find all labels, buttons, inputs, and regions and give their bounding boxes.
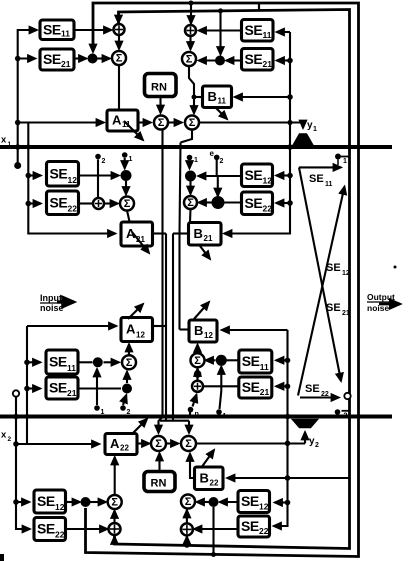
svg-text:1: 1 <box>8 141 12 148</box>
svg-text:Σ: Σ <box>155 438 162 450</box>
svg-text:Σ: Σ <box>194 355 201 367</box>
svg-text:Σ: Σ <box>185 438 192 450</box>
svg-text:e: e <box>210 149 215 158</box>
svg-text:2: 2 <box>8 436 12 443</box>
svg-text:21: 21 <box>263 59 273 69</box>
svg-text:SE: SE <box>245 195 263 211</box>
svg-text:SE: SE <box>242 353 260 369</box>
svg-text:A: A <box>112 113 122 128</box>
svg-text:11: 11 <box>263 30 272 40</box>
svg-text:Σ: Σ <box>116 53 123 65</box>
svg-text:SE: SE <box>245 22 263 38</box>
svg-text:SE: SE <box>326 302 341 314</box>
svg-text:SE: SE <box>49 380 67 396</box>
svg-text:x: x <box>1 430 7 441</box>
svg-text:SE: SE <box>50 165 68 181</box>
svg-text:12: 12 <box>204 331 213 340</box>
svg-text:11: 11 <box>61 29 70 39</box>
svg-text:B: B <box>200 470 209 485</box>
svg-text:SE: SE <box>309 173 324 185</box>
svg-text:SE: SE <box>242 379 260 395</box>
svg-text:2: 2 <box>344 413 348 420</box>
svg-text:1: 1 <box>194 157 198 164</box>
svg-text:Σ: Σ <box>189 117 196 129</box>
svg-text:B: B <box>194 226 203 241</box>
svg-text:Σ: Σ <box>186 54 193 66</box>
svg-text:21: 21 <box>61 59 71 69</box>
svg-text:11: 11 <box>67 363 76 373</box>
svg-text:22: 22 <box>68 204 78 214</box>
svg-text:1: 1 <box>129 156 133 163</box>
svg-text:noise: noise <box>40 303 64 313</box>
svg-text:SE: SE <box>245 51 263 67</box>
svg-text:Σ: Σ <box>111 497 118 509</box>
svg-text:22: 22 <box>120 444 129 453</box>
svg-text:SE: SE <box>49 354 67 370</box>
svg-text:A: A <box>110 436 120 451</box>
svg-text:B: B <box>208 89 217 104</box>
svg-text:22: 22 <box>210 479 219 488</box>
svg-text:12: 12 <box>263 176 273 186</box>
svg-text:11: 11 <box>325 181 333 188</box>
svg-text:p: p <box>195 411 199 418</box>
svg-text:22: 22 <box>55 530 65 540</box>
svg-text:x: x <box>1 135 7 146</box>
svg-text:12: 12 <box>259 502 269 512</box>
svg-text:2: 2 <box>127 409 131 416</box>
svg-text:12: 12 <box>55 502 65 512</box>
svg-text:SE: SE <box>37 521 55 537</box>
svg-text:A: A <box>126 322 136 337</box>
svg-text:12: 12 <box>68 175 78 185</box>
svg-text:SE: SE <box>305 383 320 395</box>
svg-text:1: 1 <box>343 158 347 165</box>
svg-text:2: 2 <box>220 158 224 165</box>
svg-text:SE: SE <box>241 493 259 509</box>
svg-text:SE: SE <box>50 194 68 210</box>
svg-text:B: B <box>194 323 203 338</box>
svg-text:22: 22 <box>321 391 329 398</box>
svg-text:Σ: Σ <box>158 117 165 129</box>
svg-text:22: 22 <box>259 526 269 536</box>
svg-text:SE: SE <box>245 167 263 183</box>
svg-text:12: 12 <box>342 270 350 277</box>
svg-text:Σ: Σ <box>187 197 194 209</box>
svg-text:SE: SE <box>43 21 61 37</box>
svg-text:1: 1 <box>101 409 105 416</box>
svg-text:2: 2 <box>102 158 106 165</box>
svg-text:21: 21 <box>342 310 350 317</box>
svg-text:12: 12 <box>136 331 145 340</box>
svg-text:SE: SE <box>37 493 55 509</box>
svg-text:Σ: Σ <box>185 496 192 508</box>
svg-text:Σ: Σ <box>126 357 133 369</box>
svg-text:21: 21 <box>204 234 213 243</box>
svg-text:11: 11 <box>260 362 269 372</box>
svg-text:Σ: Σ <box>124 198 131 210</box>
svg-text:RN: RN <box>151 478 167 490</box>
svg-text:SE: SE <box>241 518 259 534</box>
svg-text:21: 21 <box>67 388 77 398</box>
svg-text:SE: SE <box>43 51 61 67</box>
svg-text:RN: RN <box>151 82 167 94</box>
svg-text:1: 1 <box>223 413 227 420</box>
svg-text:2: 2 <box>315 442 319 449</box>
svg-text:22: 22 <box>263 204 273 214</box>
svg-text:SE: SE <box>326 262 341 274</box>
svg-text:1: 1 <box>313 126 317 133</box>
svg-text:Output: Output <box>367 292 395 302</box>
svg-text:11: 11 <box>218 97 227 106</box>
svg-text:21: 21 <box>260 387 270 397</box>
